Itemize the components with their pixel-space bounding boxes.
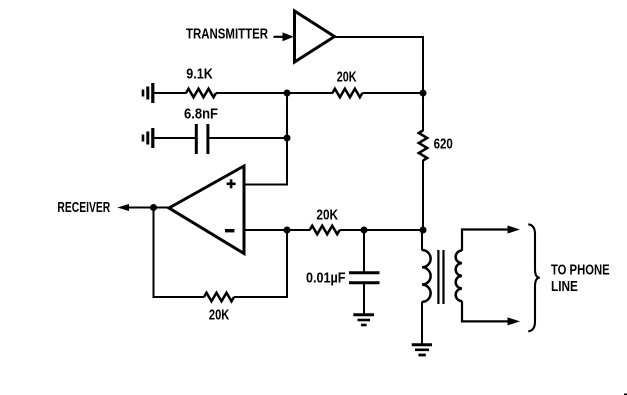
junction node B (284, 90, 291, 97)
op-amp U2 receiver amp (169, 166, 244, 254)
svg-text:TRANSMITTER: TRANSMITTER (186, 25, 268, 42)
wire: R5 to node F to node A (340, 229, 423, 231)
transmitter input arrow (274, 32, 294, 41)
wire: U1 output to node A top (334, 37, 423, 93)
wire: T1 primary to ground G4 (421, 302, 423, 345)
capacitor C1 6.8nF (196, 124, 208, 154)
U2 plus input mark (227, 179, 236, 188)
phone line top arrow (508, 226, 521, 234)
resistor R3 620 (419, 131, 427, 161)
resistor R1 9.1K (186, 89, 216, 98)
wire: secondary bottom to phone line arrow (462, 301, 508, 322)
svg-text:TO PHONE: TO PHONE (551, 263, 610, 279)
wire: U2 output to receiver arrow (126, 207, 169, 209)
wire: node D down and right to R4 (154, 208, 205, 298)
resistor R2 20K (332, 89, 362, 98)
svg-text:620: 620 (434, 137, 453, 153)
svg-text:RECEIVER: RECEIVER (57, 200, 110, 216)
wire: node A to T1 primary (421, 230, 423, 251)
wire: G1 to R1 (154, 92, 186, 94)
svg-text:0.01µF: 0.01µF (306, 270, 346, 286)
svg-text:20K: 20K (209, 307, 230, 323)
svg-text:LINE: LINE (551, 279, 578, 295)
brace to phone line (528, 224, 540, 331)
wire: R1 to node B to R2 (216, 92, 333, 94)
op-amp U1 transmitter buffer (295, 11, 335, 62)
ground G4 (412, 345, 432, 355)
junction node D (output) (150, 204, 157, 211)
ground G2 (left of C1) (143, 128, 153, 148)
wire: U2 inverting input to R5 (244, 229, 310, 231)
wire: C1 to node C (209, 137, 287, 139)
svg-text:20K: 20K (337, 69, 357, 85)
capacitor C2 0.01uF (349, 273, 380, 283)
resistor R4 20K feedback (204, 293, 234, 302)
wire: R3 to node A (422, 160, 424, 230)
wire: node F down to C2 (363, 230, 365, 272)
svg-text:9.1K: 9.1K (186, 66, 213, 82)
transformer T1 primary winding (422, 250, 431, 302)
wire: R4 up to inverting input node E (234, 230, 287, 297)
wire: R2 to node A top (362, 92, 423, 94)
wire: G2 to C1 (154, 137, 195, 139)
resistor R5 20K (310, 226, 340, 235)
page corner mark (624, 394, 627, 395)
junction node A (420, 227, 427, 234)
wire: secondary top to phone line arrow (462, 230, 508, 251)
phone line bottom arrow (508, 317, 521, 325)
wire: node B down to U2 non-inverting input (244, 93, 287, 185)
junction node C (284, 135, 291, 142)
transformer T1 core (438, 250, 443, 304)
transformer T1 secondary winding (456, 251, 462, 302)
junction at node A top (420, 90, 427, 97)
svg-text:6.8nF: 6.8nF (184, 107, 218, 123)
junction node F (361, 227, 368, 234)
ground G3 (353, 315, 374, 325)
receiver output arrow (117, 204, 129, 211)
U2 minus input mark (225, 229, 234, 232)
wire: vertical into R3 (422, 93, 424, 131)
junction node E (284, 227, 291, 234)
label TO PHONE LINE (551, 263, 610, 295)
wire: C2 to ground G3 (363, 284, 365, 314)
ground G1 (left of R1) (143, 83, 153, 103)
svg-text:20K: 20K (316, 207, 338, 223)
